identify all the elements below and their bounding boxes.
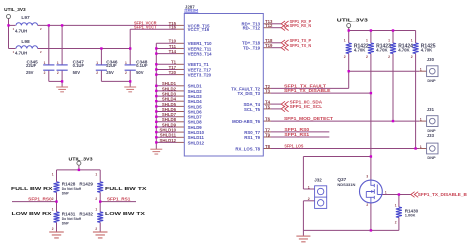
svg-text:T6: T6 xyxy=(265,117,271,122)
svg-text:RD-_T12: RD-_T12 xyxy=(243,26,261,31)
svg-text:R1431: R1431 xyxy=(62,211,76,216)
svg-text:DNP: DNP xyxy=(427,128,436,133)
svg-text:2: 2 xyxy=(125,71,127,75)
svg-text:1.00K: 1.00K xyxy=(405,213,416,218)
svg-text:1: 1 xyxy=(125,61,127,65)
svg-text:VCCT_T16: VCCT_T16 xyxy=(188,27,210,32)
svg-text:4.7UH: 4.7UH xyxy=(15,51,27,56)
svg-text:2: 2 xyxy=(95,227,97,231)
svg-text:SFP1_RS0: SFP1_RS0 xyxy=(28,197,52,202)
svg-text:1: 1 xyxy=(52,207,54,211)
svg-text:SFP1_TX_DISABLE: SFP1_TX_DISABLE xyxy=(284,88,331,93)
svg-text:2: 2 xyxy=(366,55,368,59)
svg-text:2: 2 xyxy=(308,197,310,201)
svg-text:T8: T8 xyxy=(265,144,271,149)
svg-text:L97: L97 xyxy=(21,15,30,21)
svg-text:DNP: DNP xyxy=(427,155,436,160)
svg-text:1: 1 xyxy=(411,39,413,43)
svg-text:T12: T12 xyxy=(265,23,273,28)
svg-text:SHLD12: SHLD12 xyxy=(188,140,205,145)
svg-text:SFP1_VCCT: SFP1_VCCT xyxy=(134,25,157,30)
svg-text:Do Not Stuff: Do Not Stuff xyxy=(62,187,82,191)
svg-text:T5: T5 xyxy=(265,104,271,109)
svg-text:R1429: R1429 xyxy=(79,182,93,187)
svg-text:SFP1_RX_N: SFP1_RX_N xyxy=(290,23,312,28)
svg-text:1: 1 xyxy=(420,68,422,72)
svg-text:4.70K: 4.70K xyxy=(421,47,433,52)
svg-text:SFP1_MOD_DETECT: SFP1_MOD_DETECT xyxy=(284,116,333,121)
svg-text:VEET3_T20: VEET3_T20 xyxy=(188,73,212,78)
svg-text:1: 1 xyxy=(308,185,310,189)
svg-text:VEER3_T14: VEER3_T14 xyxy=(188,52,212,57)
svg-text:MOD-ABS_T6: MOD-ABS_T6 xyxy=(232,119,261,124)
svg-text:TD-_T19: TD-_T19 xyxy=(243,46,261,51)
svg-text:T16: T16 xyxy=(169,25,177,30)
svg-text:T19: T19 xyxy=(265,43,273,48)
svg-text:UTIL_3V3: UTIL_3V3 xyxy=(69,157,94,162)
svg-text:2: 2 xyxy=(388,55,390,59)
svg-text:25V: 25V xyxy=(106,70,114,75)
svg-text:0.1UF: 0.1UF xyxy=(136,63,148,68)
svg-text:50V: 50V xyxy=(73,70,81,75)
svg-text:1: 1 xyxy=(57,61,59,65)
svg-text:0.1UF: 0.1UF xyxy=(73,63,85,68)
svg-text:UTIL_3V3: UTIL_3V3 xyxy=(4,7,26,12)
svg-text:1: 1 xyxy=(96,61,98,65)
svg-text:1: 1 xyxy=(44,61,46,65)
svg-text:2: 2 xyxy=(366,203,368,207)
svg-text:4.70K: 4.70K xyxy=(354,47,366,52)
svg-text:FULL BW TX: FULL BW TX xyxy=(105,186,148,191)
svg-text:Do Not Stuff: Do Not Stuff xyxy=(62,217,82,221)
svg-text:J33: J33 xyxy=(427,133,435,138)
svg-text:1: 1 xyxy=(395,204,397,208)
svg-text:LOW BW TX: LOW BW TX xyxy=(105,211,146,216)
svg-text:SFP1_RS1: SFP1_RS1 xyxy=(107,197,131,202)
svg-text:1: 1 xyxy=(366,39,368,43)
svg-text:DNP: DNP xyxy=(62,221,70,225)
svg-text:25V: 25V xyxy=(26,70,34,75)
svg-text:SFP1_RS1: SFP1_RS1 xyxy=(284,132,309,137)
svg-text:LOW BW RX: LOW BW RX xyxy=(12,211,53,216)
svg-text:FULL BW RX: FULL BW RX xyxy=(11,186,54,191)
svg-text:SHLD12: SHLD12 xyxy=(160,138,177,143)
svg-text:SCL_T5: SCL_T5 xyxy=(244,107,261,112)
svg-text:2: 2 xyxy=(52,197,54,201)
svg-text:R1432: R1432 xyxy=(79,211,93,216)
svg-text:1: 1 xyxy=(385,190,387,194)
svg-text:SFP1_TX_N: SFP1_TX_N xyxy=(290,43,312,48)
svg-text:TX_DIS_T3: TX_DIS_T3 xyxy=(238,91,261,96)
svg-text:22UF: 22UF xyxy=(106,63,117,68)
svg-text:2198318-6: 2198318-6 xyxy=(184,9,198,13)
svg-text:T3: T3 xyxy=(265,89,271,94)
svg-text:1: 1 xyxy=(420,145,422,149)
svg-text:1: 1 xyxy=(52,172,54,176)
svg-text:3: 3 xyxy=(366,175,368,179)
svg-text:L98: L98 xyxy=(21,39,30,45)
svg-text:1: 1 xyxy=(95,207,97,211)
svg-text:T14: T14 xyxy=(169,49,177,54)
svg-text:UTIL_3V3: UTIL_3V3 xyxy=(337,17,369,22)
svg-text:T9: T9 xyxy=(265,132,271,137)
svg-text:1: 1 xyxy=(344,39,346,43)
svg-text:2: 2 xyxy=(344,55,346,59)
svg-text:4.7UH: 4.7UH xyxy=(15,29,27,34)
svg-text:SFP1_IIC_SCL: SFP1_IIC_SCL xyxy=(290,104,323,109)
svg-text:2: 2 xyxy=(395,220,397,224)
svg-text:SFP1_LOS: SFP1_LOS xyxy=(284,144,303,149)
svg-text:RX_LOS_T8: RX_LOS_T8 xyxy=(235,146,260,151)
svg-text:RS1_T9: RS1_T9 xyxy=(244,135,260,140)
svg-text:4.70K: 4.70K xyxy=(376,47,388,52)
svg-text:J31: J31 xyxy=(427,107,435,112)
svg-text:2: 2 xyxy=(57,71,59,75)
svg-text:SFP1_TX_DISABLE_B: SFP1_TX_DISABLE_B xyxy=(418,192,468,197)
svg-text:J32: J32 xyxy=(314,178,322,183)
svg-text:4.70K: 4.70K xyxy=(398,47,410,52)
svg-text:T20: T20 xyxy=(169,70,177,75)
svg-text:DNP: DNP xyxy=(62,191,70,195)
svg-text:1: 1 xyxy=(95,172,97,176)
svg-text:22UF: 22UF xyxy=(26,63,37,68)
svg-text:R1428: R1428 xyxy=(62,182,76,187)
svg-text:DNP: DNP xyxy=(427,78,436,83)
svg-text:1: 1 xyxy=(388,39,390,43)
svg-text:J30: J30 xyxy=(427,57,435,62)
svg-text:2: 2 xyxy=(44,71,46,75)
svg-text:2: 2 xyxy=(411,55,413,59)
svg-text:NDS331N: NDS331N xyxy=(337,182,355,187)
svg-text:2: 2 xyxy=(52,227,54,231)
svg-text:1: 1 xyxy=(420,118,422,122)
svg-text:2: 2 xyxy=(96,71,98,75)
svg-text:50V: 50V xyxy=(136,70,144,75)
svg-text:2: 2 xyxy=(95,197,97,201)
